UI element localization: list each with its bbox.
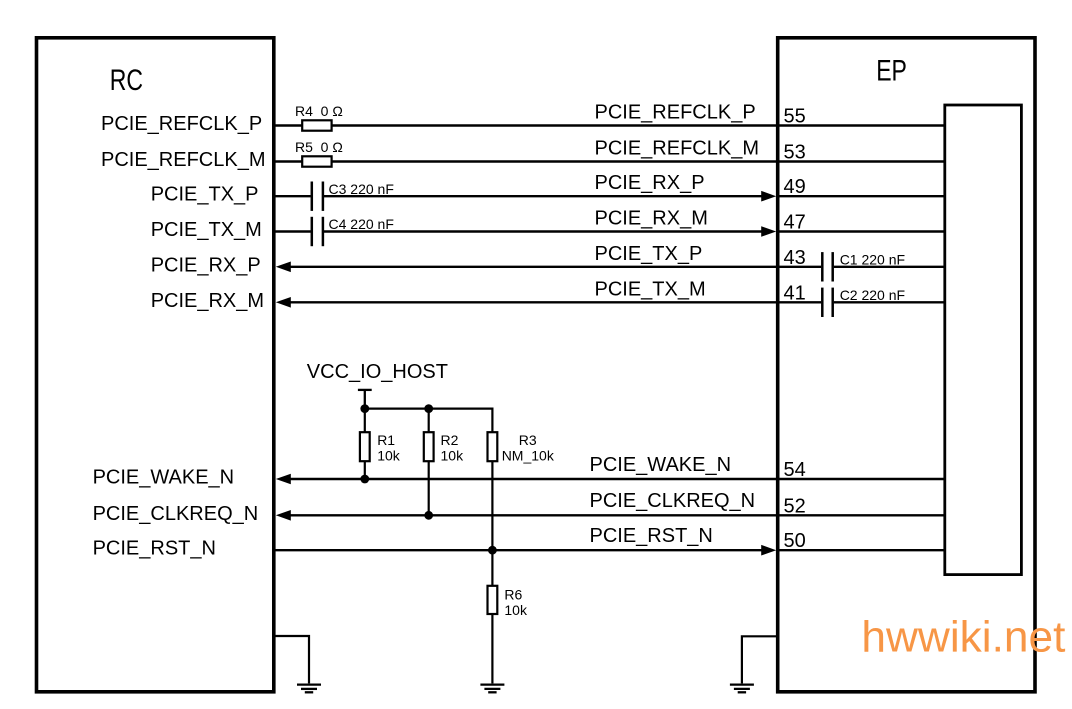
wire EP ground stub <box>742 636 779 683</box>
ground symbol at RC <box>297 685 321 693</box>
wire R3 to PCIE_RST_N <box>491 461 493 550</box>
wire R2 to PCIE_CLKREQ_N <box>428 461 430 515</box>
svg-text:RC: RC <box>110 64 143 97</box>
svg-text:R6: R6 <box>504 587 522 603</box>
svg-text:PCIE_RST_N: PCIE_RST_N <box>590 525 713 547</box>
svg-text:R4 0 Ω: R4 0 Ω <box>295 103 343 119</box>
svg-text:50: 50 <box>784 530 806 552</box>
junction node R3/PCIE_RST_N <box>488 546 497 555</box>
wire PCIE_RX_M from RC to C2 <box>289 301 821 303</box>
svg-text:49: 49 <box>784 176 806 198</box>
svg-text:R3: R3 <box>519 432 537 448</box>
wire R1 to PCIE_WAKE_N <box>364 461 366 479</box>
capacitor C1 <box>822 252 832 281</box>
svg-text:43: 43 <box>784 247 806 269</box>
wire RC ground stub <box>274 636 309 683</box>
wire VCC rail to R3 <box>491 408 493 433</box>
svg-text:10k: 10k <box>504 602 528 618</box>
wire PCIE_RX_P from RC to C1 <box>289 266 821 268</box>
resistor R4 body <box>302 120 331 130</box>
wire VCC rail <box>365 408 493 410</box>
wire PCIE_RST_N from RC to EP pin 50 <box>274 549 763 551</box>
IC block RC <box>37 38 274 692</box>
svg-text:PCIE_WAKE_N: PCIE_WAKE_N <box>93 467 235 489</box>
resistor R6 body <box>488 586 498 614</box>
svg-text:C1 220 nF: C1 220 nF <box>840 251 905 267</box>
svg-text:PCIE_TX_P: PCIE_TX_P <box>595 243 703 265</box>
junction node VCC/R2 <box>424 404 433 413</box>
IC block EP <box>778 38 1035 692</box>
svg-text:C2 220 nF: C2 220 nF <box>840 287 905 303</box>
svg-text:PCIE_RX_M: PCIE_RX_M <box>595 208 708 230</box>
wire PCIE_TX_P from RC to C3 <box>274 195 311 197</box>
svg-text:PCIE_REFCLK_M: PCIE_REFCLK_M <box>101 149 266 171</box>
svg-text:hwwiki.net: hwwiki.net <box>861 612 1065 661</box>
wire PCIE_RX_M from C4 to EP pin 47 <box>324 230 763 232</box>
svg-text:10k: 10k <box>377 447 401 463</box>
arrowhead into EP pin 47 <box>761 226 776 237</box>
arrowhead into EP pin 50 <box>761 545 776 556</box>
svg-text:NM_10k: NM_10k <box>502 447 555 463</box>
svg-text:53: 53 <box>784 142 806 164</box>
wire VCC rail to R1 <box>364 409 366 433</box>
svg-text:PCIE_RX_M: PCIE_RX_M <box>151 290 264 312</box>
svg-text:VCC_IO_HOST: VCC_IO_HOST <box>307 361 448 383</box>
svg-text:R2: R2 <box>441 432 459 448</box>
svg-text:PCIE_RST_N: PCIE_RST_N <box>93 538 216 560</box>
svg-text:54: 54 <box>784 459 806 481</box>
svg-text:10k: 10k <box>441 447 465 463</box>
arrowhead into RC PCIE_CLKREQ_N <box>276 510 291 521</box>
svg-text:EP: EP <box>876 55 907 88</box>
wire PCIE_TX_M from C2 to EP internal block <box>834 301 945 303</box>
wire PCIE_RX_M inside EP <box>777 230 945 232</box>
wire PCIE_RX_P inside EP <box>777 195 945 197</box>
svg-text:41: 41 <box>784 282 806 304</box>
junction node R1/PCIE_WAKE_N <box>360 475 369 484</box>
svg-text:PCIE_REFCLK_P: PCIE_REFCLK_P <box>101 113 262 135</box>
wire PCIE_TX_P from C1 to EP internal block <box>834 266 945 268</box>
EP internal block <box>945 105 1022 575</box>
wire PCIE_CLKREQ_N from RC to EP internal block <box>289 514 945 516</box>
wire PCIE_REFCLK_P from R4 to EP internal block <box>332 124 945 126</box>
wire VCC rail to R2 <box>428 409 430 433</box>
arrowhead into RC PCIE_RX_P <box>276 262 291 273</box>
capacitor C4 <box>312 217 323 246</box>
svg-text:PCIE_TX_M: PCIE_TX_M <box>595 278 706 300</box>
ground symbol at EP <box>730 685 754 693</box>
svg-text:PCIE_CLKREQ_N: PCIE_CLKREQ_N <box>590 490 756 512</box>
svg-text:C4 220 nF: C4 220 nF <box>329 216 394 232</box>
wire R6 to ground <box>491 614 493 683</box>
resistor R5 body <box>302 156 331 166</box>
power symbol VCC_IO_HOST <box>358 390 372 409</box>
svg-text:PCIE_REFCLK_M: PCIE_REFCLK_M <box>595 138 760 160</box>
resistor R1 body <box>360 432 370 461</box>
wire PCIE_REFCLK_M from R5 to EP internal block <box>332 160 945 162</box>
svg-text:PCIE_TX_P: PCIE_TX_P <box>151 184 259 206</box>
svg-text:R1: R1 <box>377 432 395 448</box>
svg-text:PCIE_REFCLK_P: PCIE_REFCLK_P <box>595 102 756 124</box>
wire PCIE_RX_P from C3 to EP pin 49 <box>324 195 763 197</box>
svg-text:R5 0 Ω: R5 0 Ω <box>295 139 343 155</box>
capacitor C3 <box>312 182 323 211</box>
svg-text:PCIE_WAKE_N: PCIE_WAKE_N <box>590 454 732 476</box>
resistor R3 body <box>488 432 498 461</box>
wire PCIE_REFCLK_P from RC to R4 <box>274 124 302 126</box>
svg-text:PCIE_CLKREQ_N: PCIE_CLKREQ_N <box>93 503 259 525</box>
svg-text:PCIE_RX_P: PCIE_RX_P <box>151 254 261 276</box>
arrowhead into RC PCIE_WAKE_N <box>276 474 291 485</box>
wire PCIE_RST_N inside EP <box>777 549 945 551</box>
ground symbol below R6 <box>480 685 504 693</box>
svg-text:52: 52 <box>784 495 806 517</box>
wire PCIE_WAKE_N from RC to EP internal block <box>289 478 945 480</box>
svg-text:55: 55 <box>784 106 806 128</box>
svg-text:47: 47 <box>784 212 806 234</box>
arrowhead into RC PCIE_RX_M <box>276 297 291 308</box>
wire PCIE_TX_M from RC to C4 <box>274 230 311 232</box>
junction node VCC/R1 <box>360 404 369 413</box>
capacitor C2 <box>822 288 832 317</box>
resistor R2 body <box>424 432 434 461</box>
svg-text:PCIE_RX_P: PCIE_RX_P <box>595 172 705 194</box>
svg-text:C3 220 nF: C3 220 nF <box>329 181 394 197</box>
svg-text:PCIE_TX_M: PCIE_TX_M <box>151 219 262 241</box>
wire PCIE_RST_N to R6 <box>491 550 493 586</box>
wire PCIE_REFCLK_M from RC to R5 <box>274 160 302 162</box>
junction node R2/PCIE_CLKREQ_N <box>424 511 433 520</box>
arrowhead into EP pin 49 <box>761 191 776 202</box>
